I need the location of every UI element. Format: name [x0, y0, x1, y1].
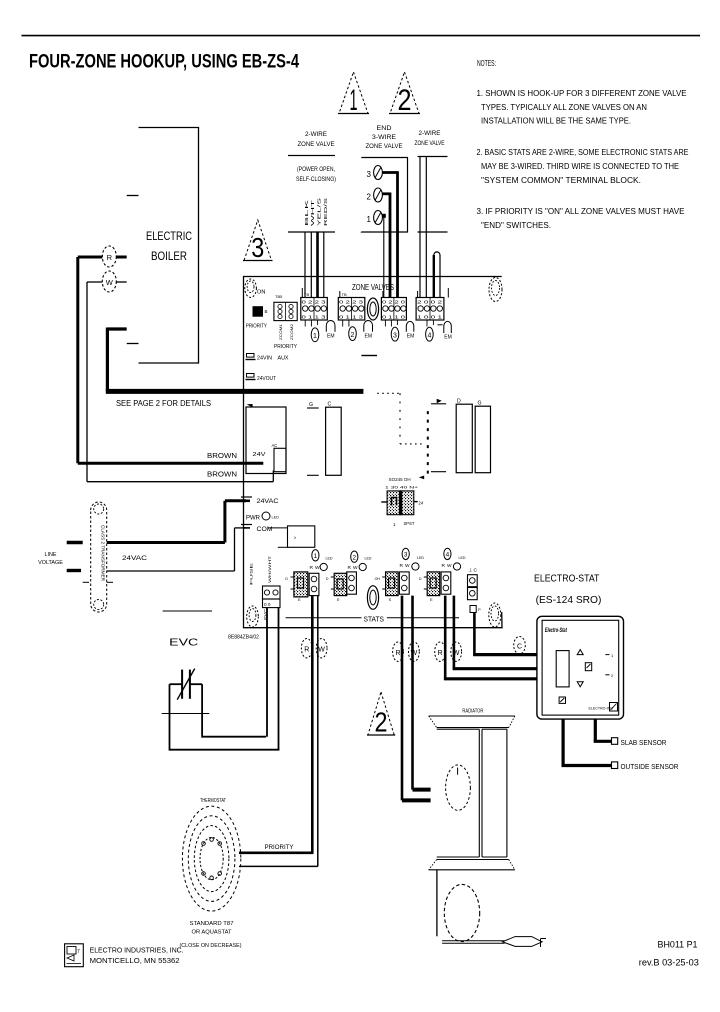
- svg-text:W: W: [411, 650, 418, 657]
- svg-text:D: D: [285, 577, 288, 581]
- board center dash: [361, 355, 377, 357]
- line voltage stubs: [67, 543, 83, 571]
- svg-text:1: 1: [367, 215, 372, 224]
- board com terminal: [241, 525, 288, 534]
- svg-text:G: G: [478, 401, 482, 407]
- svg-text:R: R: [107, 253, 113, 262]
- title rule: [22, 35, 701, 37]
- svg-text:R: R: [438, 650, 443, 657]
- svg-text:ZONE VALVE: ZONE VALVE: [415, 141, 445, 147]
- board mounting hole bottom-right: [489, 603, 501, 627]
- svg-text:W: W: [315, 565, 320, 571]
- svg-text:2 0 0 2: 2 0 0 2: [417, 300, 443, 305]
- zone valve V3 label: [415, 131, 445, 147]
- svg-text:B: B: [265, 309, 268, 314]
- capillary tube and bulb: [442, 937, 542, 947]
- boiler terminal W: [87, 271, 127, 292]
- drawing number: [639, 940, 699, 968]
- board transformer box: [278, 526, 315, 547]
- svg-text:R: R: [442, 563, 446, 569]
- heavy boiler supply wire: [106, 328, 364, 392]
- svg-text:1: 1: [314, 553, 318, 560]
- wire label circle W zone1: [316, 639, 327, 658]
- thermostat type label: [180, 921, 242, 949]
- svg-text:1 30 40 N+: 1 30 40 N+: [385, 486, 418, 490]
- svg-text:›: ›: [294, 536, 296, 542]
- svg-text:LED: LED: [326, 557, 333, 561]
- svg-text:7: 7: [77, 949, 80, 955]
- svg-text:"SYSTEM COMMON" TERMINAL BLOCK: "SYSTEM COMMON" TERMINAL BLOCK.: [481, 175, 641, 185]
- svg-text:CLASS 2 TRANSFORMER: CLASS 2 TRANSFORMER: [101, 525, 106, 582]
- svg-text:D: D: [419, 577, 422, 581]
- priority dashed link: [377, 393, 428, 479]
- svg-text:SELF-CLOSING): SELF-CLOSING): [296, 177, 336, 183]
- manufacturer address: [90, 948, 184, 966]
- end switch SW1: [177, 669, 195, 700]
- svg-text:24VOUT: 24VOUT: [257, 376, 276, 382]
- svg-text:D: D: [326, 577, 329, 581]
- svg-text:LED: LED: [459, 556, 466, 560]
- svg-text:EM: EM: [444, 335, 452, 341]
- svg-text:24VIN: 24VIN: [257, 356, 272, 362]
- svg-text:NOTES:: NOTES:: [477, 58, 496, 68]
- svg-text:LED: LED: [272, 516, 280, 520]
- svg-text:3: 3: [404, 552, 408, 559]
- wire V2-2 to TB3: [382, 193, 390, 298]
- wire label circle R zone4: [435, 642, 446, 661]
- svg-text:0 2 2 3: 0 2 2 3: [302, 300, 327, 305]
- wire label circle C: [514, 637, 526, 654]
- svg-text:W: W: [405, 563, 410, 569]
- board mounting hole top-left: [245, 279, 257, 297]
- svg-text:4: 4: [446, 552, 450, 559]
- svg-text:LED: LED: [417, 556, 424, 560]
- svg-text:24: 24: [419, 501, 424, 506]
- evc terminal block: [263, 586, 281, 620]
- svg-text:8E884ZB4/02: 8E884ZB4/02: [228, 635, 259, 641]
- stat terminal 4: [441, 548, 466, 594]
- svg-text:WH/WHT: WH/WHT: [267, 555, 272, 583]
- svg-text:ZCOM2: ZCOM2: [289, 323, 294, 340]
- svg-text:D: D: [457, 399, 461, 405]
- svg-text:ZONE VALVE: ZONE VALVE: [298, 142, 335, 148]
- svg-text:R: R: [400, 563, 404, 569]
- svg-text:S: S: [389, 597, 392, 602]
- V2 terminal 3: [367, 166, 383, 180]
- zone valve V1 2-wire power open self-closing: [288, 156, 336, 233]
- svg-text:2: 2: [398, 84, 412, 117]
- system common wire to stat: [473, 613, 537, 655]
- zone valve V1 label: [298, 132, 335, 148]
- terminal block TB3: [381, 291, 406, 320]
- svg-text:2: 2: [351, 332, 355, 339]
- svg-text:0 1 1 0: 0 1 1 0: [382, 315, 406, 320]
- terminal block TB2: [338, 291, 365, 320]
- svg-text:TB: TB: [342, 292, 347, 297]
- svg-text:0 2 2 3: 0 2 2 3: [339, 300, 364, 305]
- stat chip U1: [285, 572, 307, 602]
- zone1 stat wire W: [239, 596, 318, 867]
- svg-text:RED/S: RED/S: [323, 198, 328, 226]
- wire label circle R zone3: [393, 642, 404, 661]
- svg-text:0 1 1 3: 0 1 1 3: [339, 315, 364, 320]
- boiler terminal R: [78, 246, 127, 267]
- svg-text:1: 1: [350, 84, 358, 117]
- svg-text:LINE: LINE: [45, 552, 57, 558]
- wire label circle W zone3: [409, 642, 420, 661]
- svg-text:BLK: BLK: [304, 197, 309, 226]
- svg-text:W: W: [106, 278, 114, 287]
- svg-text:TB5: TB5: [275, 294, 283, 299]
- board hole center-bottom: [367, 586, 378, 610]
- svg-text:G: G: [309, 402, 313, 408]
- svg-text:BROWN: BROWN: [207, 453, 237, 460]
- boiler label: [146, 231, 192, 263]
- svg-text:MONTICELLO, MN 55362: MONTICELLO, MN 55362: [90, 958, 180, 965]
- electro-stat ES1: [537, 616, 624, 719]
- svg-text:INSTALLATION WILL BE THE SAME: INSTALLATION WILL BE THE SAME TYPE.: [481, 116, 631, 126]
- triangle note 2: [389, 72, 420, 117]
- board 24vac terminal: [241, 497, 279, 505]
- outside sensor wire: [562, 719, 679, 771]
- svg-text:ZONE VALVE: ZONE VALVE: [366, 144, 403, 150]
- terminal block TB1: [301, 288, 328, 320]
- wire brown 1: [78, 453, 263, 463]
- crossing tick: [162, 713, 210, 715]
- svg-text:SPST: SPST: [404, 521, 415, 526]
- svg-text:1 0 0 1: 1 0 0 1: [417, 315, 443, 320]
- V2 terminal 2: [367, 188, 383, 202]
- transformer T1: [83, 502, 113, 612]
- svg-text:P: P: [478, 607, 481, 612]
- svg-text:FUSE: FUSE: [249, 562, 254, 585]
- svg-text:MAY BE 3-WIRED. THIRD WIRE IS: MAY BE 3-WIRED. THIRD WIRE IS CONNECTED …: [481, 161, 679, 171]
- evc wire outer: [170, 608, 280, 751]
- triangle note 1: [338, 72, 369, 117]
- wire label circle R zone1: [301, 639, 312, 658]
- svg-text:PRIORITY: PRIORITY: [274, 344, 298, 350]
- svg-text:W: W: [318, 647, 325, 654]
- svg-text:"END" SWITCHES.: "END" SWITCHES.: [481, 220, 551, 230]
- svg-text:W: W: [353, 565, 358, 571]
- zone 2 indicator below TB2: [343, 320, 373, 341]
- wire V2-1 to TB3: [382, 214, 385, 298]
- svg-text:TYPES. TYPICALLY ALL ZONE VALV: TYPES. TYPICALLY ALL ZONE VALVES ON AN: [481, 102, 647, 112]
- svg-text:R: R: [310, 565, 314, 571]
- V2 terminal 1: [367, 211, 383, 225]
- svg-text:EVC: EVC: [169, 638, 198, 649]
- svg-text:ON: ON: [257, 290, 265, 296]
- svg-text:SLAB SENSOR: SLAB SENSOR: [621, 738, 667, 747]
- svg-text:EM: EM: [365, 334, 373, 340]
- wire boiler W down to brown: [86, 282, 88, 482]
- manufacturer logo: [65, 944, 84, 967]
- svg-text:OR AQUASTAT: OR AQUASTAT: [192, 929, 233, 935]
- zone 4 indicator below TB4: [426, 320, 452, 341]
- svg-text:1. SHOWN IS HOOK-UP FOR 3 DIFF: 1. SHOWN IS HOOK-UP FOR 3 DIFFERENT ZONE…: [477, 88, 687, 98]
- zone valve V2 3-wire body: [361, 158, 407, 233]
- wire brown 2: [87, 471, 273, 482]
- svg-text:OUTSIDE SENSOR: OUTSIDE SENSOR: [621, 762, 679, 771]
- capillary coil: [437, 870, 480, 942]
- svg-text:(CLOSE ON DECREASE): (CLOSE ON DECREASE): [180, 943, 242, 949]
- svg-text:3. IF PRIORITY IS "ON" ALL ZON: 3. IF PRIORITY IS "ON" ALL ZONE VALVES M…: [477, 206, 685, 216]
- svg-text:3-WIRE: 3-WIRE: [372, 135, 396, 141]
- zone3 stat wire W: [413, 596, 431, 790]
- svg-text:PWR: PWR: [246, 515, 260, 522]
- zone valve V3 body: [418, 157, 448, 233]
- svg-text:C: C: [517, 643, 522, 650]
- zone4 stat wire W: [453, 596, 537, 669]
- stat chip U4: [419, 572, 440, 602]
- svg-text:E: E: [337, 597, 340, 602]
- svg-text:SEE PAGE 2 FOR DETAILS: SEE PAGE 2 FOR DETAILS: [116, 399, 211, 408]
- svg-text:ELECTRO-STAT: ELECTRO-STAT: [534, 574, 599, 585]
- fuse 24vin: [246, 354, 290, 362]
- wire 24vac hot: [107, 501, 246, 543]
- svg-text:AC: AC: [272, 443, 278, 448]
- slab sensor wire: [594, 719, 667, 747]
- svg-text:W: W: [453, 650, 460, 657]
- svg-text:STANDARD T87: STANDARD T87: [190, 921, 234, 927]
- electro-stat label: [534, 574, 601, 607]
- svg-text:EM: EM: [327, 334, 335, 340]
- svg-text:3: 3: [367, 170, 372, 179]
- svg-text:2: 2: [375, 707, 388, 738]
- radiator: [429, 716, 515, 870]
- wire V1 to TB1: [305, 232, 324, 298]
- zone valve V2 label: [366, 126, 403, 150]
- zone 1 indicator below TB1: [305, 320, 335, 342]
- svg-text:THERMOSTAT: THERMOSTAT: [200, 798, 226, 804]
- stat terminal 1: [309, 550, 333, 596]
- svg-text:E: E: [430, 597, 433, 602]
- svg-text:AUX: AUX: [278, 356, 290, 362]
- relay D: [456, 399, 472, 473]
- svg-text:VOLTAGE: VOLTAGE: [38, 560, 63, 566]
- wire V2-3 to TB3: [382, 171, 397, 298]
- svg-text:R: R: [348, 565, 352, 571]
- relay G2: [475, 401, 490, 473]
- svg-text:YEL/S: YEL/S: [317, 198, 322, 226]
- system common terminal block: [274, 294, 297, 340]
- evc underline segment: [163, 610, 213, 612]
- relay SO245: [381, 477, 424, 527]
- system C terminal block: [468, 568, 482, 613]
- stray mark: [541, 939, 547, 948]
- wire label circle W zone4: [451, 642, 462, 661]
- svg-text:0 0: 0 0: [264, 602, 271, 607]
- zone1 stat wire R: [239, 596, 314, 853]
- svg-text:END: END: [377, 126, 393, 132]
- relay C: [326, 402, 342, 476]
- svg-text:SO245 OH: SO245 OH: [389, 477, 411, 482]
- svg-text:0 2 2 0: 0 2 2 0: [382, 300, 406, 305]
- svg-text:R: R: [395, 650, 400, 657]
- svg-text:24V: 24V: [253, 452, 266, 458]
- svg-text:BH011 P1: BH011 P1: [658, 940, 698, 950]
- line voltage label: [38, 552, 63, 566]
- svg-text:PRIORITY: PRIORITY: [246, 323, 267, 329]
- svg-text:R: R: [304, 647, 309, 654]
- svg-text:EM: EM: [407, 334, 415, 340]
- wire V3 to TB4: [420, 157, 426, 298]
- relay P position ticks: [431, 399, 446, 472]
- svg-text:1: 1: [393, 522, 396, 527]
- svg-text:W: W: [447, 563, 452, 569]
- terminal block TB4: [416, 288, 448, 320]
- zone 3 indicator below TB3: [385, 320, 414, 341]
- svg-text:(ES-124 SRO): (ES-124 SRO): [536, 594, 602, 606]
- svg-text:2-WIRE: 2-WIRE: [419, 131, 441, 137]
- svg-text:2: 2: [353, 554, 357, 561]
- zone3 stat wire R: [402, 596, 431, 801]
- pwr led: [246, 512, 279, 522]
- board mounting hole top-right: [489, 278, 502, 302]
- svg-text:0 1 1 3: 0 1 1 3: [302, 315, 327, 320]
- triangle note 2 lower: [367, 692, 395, 738]
- stats heading with rules: [286, 615, 459, 624]
- svg-text:LED: LED: [365, 557, 372, 561]
- relay K1 coil box: [246, 404, 286, 474]
- svg-text:24VAC: 24VAC: [257, 499, 280, 505]
- stat terminal 2: [347, 551, 372, 594]
- svg-text:E: E: [298, 597, 301, 602]
- stat chip U2: [326, 573, 347, 602]
- evc wire inner: [190, 608, 267, 738]
- svg-text:(POWER OPEN,: (POWER OPEN,: [297, 167, 335, 173]
- svg-text:BROWN: BROWN: [207, 472, 237, 479]
- svg-text:BOILER: BOILER: [151, 251, 187, 263]
- svg-text:3: 3: [393, 332, 397, 339]
- svg-text:RADIATOR: RADIATOR: [462, 708, 483, 714]
- triangle note 3: [243, 220, 273, 263]
- relay G position ticks: [307, 402, 319, 475]
- jumper loop at TB4: [434, 252, 440, 298]
- electric boiler outline: [127, 128, 199, 364]
- strap-on sensor: [446, 765, 471, 810]
- wire boiler R down to brown: [76, 257, 79, 463]
- board hole center-top: [367, 298, 378, 320]
- board mounting hole bottom-left: [247, 606, 259, 627]
- svg-text:2-WIRE: 2-WIRE: [305, 132, 327, 138]
- svg-text:⊥ C: ⊥ C: [468, 568, 478, 574]
- stat terminal 3: [399, 548, 424, 594]
- svg-text:TB: TB: [304, 292, 309, 297]
- svg-text:1: 1: [313, 333, 317, 340]
- stat chip U3: [375, 572, 398, 602]
- svg-text:PRIORITY: PRIORITY: [265, 844, 294, 851]
- svg-text:FOUR-ZONE HOOKUP, USING EB-ZS-: FOUR-ZONE HOOKUP, USING EB-ZS-4: [29, 52, 299, 73]
- svg-text:ZONE VALVES: ZONE VALVES: [352, 283, 394, 292]
- svg-text:ELECTRO INDUSTRIES, INC.: ELECTRO INDUSTRIES, INC.: [90, 948, 184, 955]
- svg-text:2. BASIC STATS ARE 2-WIRE, SOM: 2. BASIC STATS ARE 2-WIRE, SOME ELECTRON…: [477, 147, 689, 157]
- svg-text:3: 3: [251, 232, 264, 263]
- svg-text:2: 2: [367, 193, 372, 202]
- svg-text:4: 4: [427, 332, 431, 339]
- wire 24v common: [107, 528, 246, 571]
- svg-text:WHT: WHT: [310, 200, 315, 226]
- svg-text:OH: OH: [375, 577, 381, 581]
- thermostat T87: [182, 806, 240, 911]
- svg-text:ZCOM1: ZCOM1: [278, 323, 283, 340]
- svg-text:rev.B 03-25-03: rev.B 03-25-03: [639, 958, 699, 968]
- svg-text:STATS: STATS: [364, 615, 385, 624]
- fuse 24vout: [246, 374, 277, 383]
- svg-text:Electro-Stat: Electro-Stat: [545, 628, 568, 634]
- zone4 stat wire R: [444, 596, 537, 679]
- EB-ZS-4 board outline: [244, 277, 503, 628]
- svg-text:24VAC: 24VAC: [122, 555, 148, 562]
- svg-text:ELECTRIC: ELECTRIC: [146, 231, 192, 243]
- priority dip switch S1: [253, 306, 268, 317]
